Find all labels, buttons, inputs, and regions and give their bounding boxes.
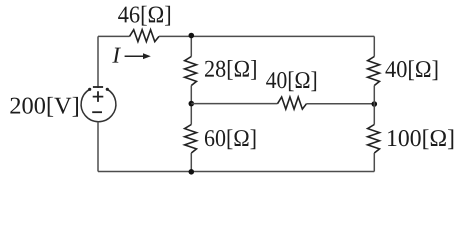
wire left vertical upper <box>97 36 99 88</box>
wire middle-right horizontal <box>307 103 375 105</box>
label current I <box>112 48 121 63</box>
wire bottom horizontal <box>98 171 374 173</box>
label 60 ohm <box>205 129 255 149</box>
voltage source terminal bar <box>93 86 103 88</box>
wire right vertical middle <box>373 86 375 125</box>
wire branch1 middle <box>190 86 192 125</box>
label 46 ohm <box>118 6 170 26</box>
wire branch1 top <box>190 36 192 57</box>
voltage source circle <box>81 89 116 121</box>
label 100 ohm <box>388 129 453 149</box>
wire right vertical bottom <box>373 153 375 172</box>
wire middle-left horizontal <box>191 103 277 105</box>
label 40 ohm right <box>385 60 437 80</box>
current arrow <box>125 55 144 57</box>
node middle-left junction dot <box>189 101 195 107</box>
resistor 40 ohm right zigzag <box>368 57 380 86</box>
voltage source plus sign <box>93 91 104 102</box>
wire top-left horizontal <box>98 35 130 37</box>
resistor 46 ohm zigzag <box>130 30 160 42</box>
resistor 28 ohm zigzag <box>185 57 197 86</box>
wire right vertical top <box>373 36 375 56</box>
node top junction dot <box>189 33 195 39</box>
resistor 40 ohm middle zigzag <box>278 97 307 109</box>
label 200 V <box>10 97 78 117</box>
node bottom junction dot <box>189 169 195 175</box>
wire left vertical lower <box>97 122 99 172</box>
label 40 ohm middle <box>266 71 316 91</box>
node middle-right junction dot <box>372 101 378 107</box>
resistor 60 ohm zigzag <box>185 125 197 154</box>
voltage source minus sign <box>92 111 102 113</box>
wire top-right horizontal <box>159 35 374 37</box>
wire branch1 bottom <box>190 153 192 172</box>
label 28 ohm <box>205 60 256 80</box>
resistor 100 ohm zigzag <box>368 125 380 154</box>
